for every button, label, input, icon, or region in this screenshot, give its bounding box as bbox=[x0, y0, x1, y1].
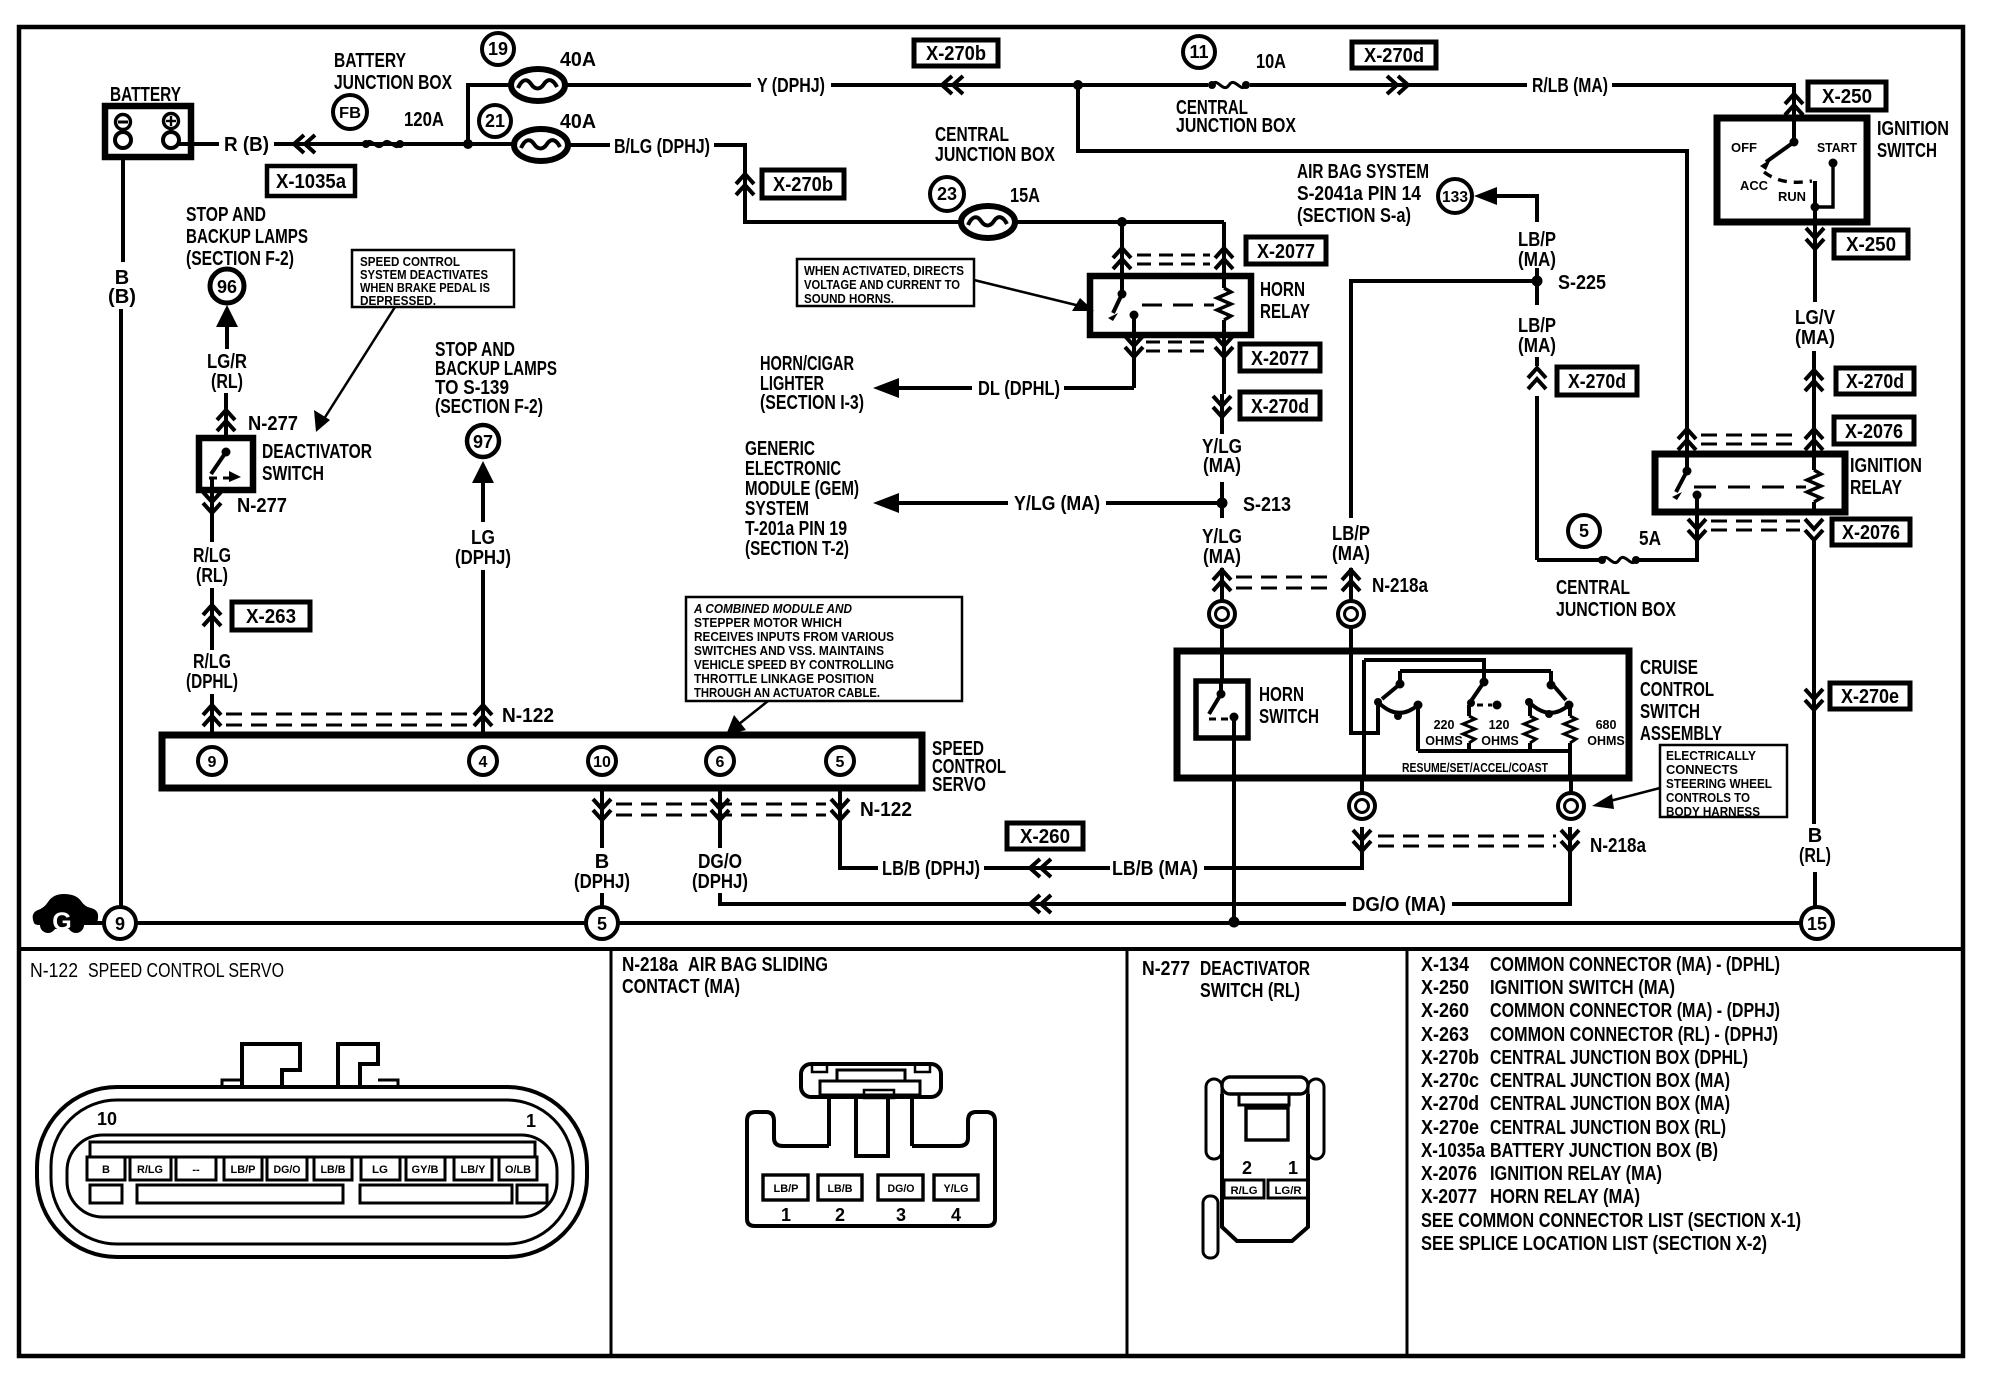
wire B (B) battery to ground bbox=[121, 157, 125, 262]
svg-text:SEE SPLICE LOCATION LIST (SECT: SEE SPLICE LOCATION LIST (SECTION X-2) bbox=[1421, 1233, 1767, 1255]
svg-text:(MA): (MA) bbox=[1332, 543, 1370, 565]
svg-text:10: 10 bbox=[593, 754, 611, 771]
ground bus bbox=[92, 921, 104, 925]
svg-text:SPEED CONTROL: SPEED CONTROL bbox=[360, 255, 460, 269]
svg-text:6: 6 bbox=[716, 754, 725, 771]
connector X-2076 dashes top bbox=[1701, 434, 1800, 437]
wire into servo pin 9 bbox=[210, 694, 214, 735]
connector X-250 bottom bbox=[1834, 230, 1908, 258]
connector N-218a drawing bbox=[747, 1064, 995, 1226]
connector X-250 top bbox=[1808, 82, 1886, 110]
svg-text:START: START bbox=[1817, 141, 1857, 155]
svg-text:X-270b: X-270b bbox=[773, 174, 833, 196]
svg-text:DEACTIVATOR: DEACTIVATOR bbox=[262, 441, 372, 463]
svg-text:T-201a PIN 19: T-201a PIN 19 bbox=[745, 518, 847, 540]
panel divider 3 bbox=[1406, 949, 1409, 1356]
svg-text:X-2077: X-2077 bbox=[1251, 348, 1309, 370]
ground ref circle 15 bbox=[1801, 907, 1833, 939]
ground ref circle 9 bbox=[104, 907, 136, 939]
svg-text:X-250: X-250 bbox=[1846, 234, 1896, 256]
svg-text:X-260: X-260 bbox=[1421, 1000, 1469, 1022]
svg-text:1: 1 bbox=[526, 1111, 536, 1131]
svg-text:DEPRESSED.: DEPRESSED. bbox=[360, 294, 436, 308]
svg-text:CENTRAL JUNCTION BOX (MA): CENTRAL JUNCTION BOX (MA) bbox=[1490, 1070, 1730, 1092]
svg-text:4: 4 bbox=[479, 754, 488, 771]
connector N-277 drawing bbox=[1203, 1077, 1324, 1258]
svg-text:X-270b: X-270b bbox=[926, 43, 986, 65]
node N-122 dashes bottom bbox=[616, 803, 826, 806]
svg-text:19: 19 bbox=[488, 39, 508, 59]
wire horn switch to ground bus bbox=[1232, 738, 1236, 921]
bullet connector right (LB/P) bbox=[1338, 601, 1364, 627]
svg-text:(DPHJ): (DPHJ) bbox=[574, 871, 630, 893]
svg-text:X-270e: X-270e bbox=[1841, 686, 1899, 708]
wire relay out to 5A bbox=[1639, 512, 1697, 560]
arrow up to 97 bbox=[472, 461, 494, 483]
wire DG/O down and right bbox=[720, 893, 1346, 904]
svg-text:LG: LG bbox=[372, 1164, 388, 1176]
svg-text:(SECTION I-3): (SECTION I-3) bbox=[760, 392, 864, 414]
ground G symbol bbox=[33, 894, 98, 936]
fuse 10A inline bbox=[1208, 81, 1250, 89]
svg-text:CENTRAL: CENTRAL bbox=[935, 124, 1009, 146]
svg-text:23: 23 bbox=[937, 184, 957, 204]
svg-text:IGNITION: IGNITION bbox=[1877, 118, 1949, 140]
svg-text:(SECTION F-2): (SECTION F-2) bbox=[435, 396, 543, 418]
servo pin 5 bbox=[826, 747, 854, 775]
fuse 120A inline bbox=[362, 140, 404, 148]
wire Y (DPHJ) bbox=[565, 83, 751, 87]
wire S-225 branch left and down x1351 bbox=[1351, 281, 1537, 518]
wire DL (DPHL) to horn/cigar bbox=[1064, 386, 1134, 390]
svg-text:GENERIC: GENERIC bbox=[745, 438, 815, 460]
svg-text:(MA): (MA) bbox=[1518, 249, 1556, 271]
svg-text:B: B bbox=[102, 1164, 110, 1176]
svg-text:SERVO: SERVO bbox=[932, 774, 986, 796]
svg-text:4: 4 bbox=[951, 1205, 961, 1225]
svg-text:ELECTRICALLY: ELECTRICALLY bbox=[1666, 749, 1757, 763]
wire LB/P riser x1537 bbox=[1535, 396, 1539, 560]
svg-text:(RL): (RL) bbox=[196, 565, 228, 587]
svg-text:LB/P: LB/P bbox=[1518, 229, 1556, 251]
svg-text:(MA): (MA) bbox=[1795, 327, 1835, 349]
svg-text:X-2077: X-2077 bbox=[1257, 241, 1315, 263]
svg-text:STOP AND: STOP AND bbox=[186, 204, 266, 226]
svg-text:STEERING WHEEL: STEERING WHEEL bbox=[1666, 777, 1772, 791]
ground ref circle 5 bbox=[586, 907, 618, 939]
svg-text:COMMON CONNECTOR (MA) - (DPHJ: COMMON CONNECTOR (MA) - (DPHJ) bbox=[1490, 1000, 1780, 1022]
svg-text:JUNCTION BOX: JUNCTION BOX bbox=[1176, 115, 1297, 137]
fuse 23 circle bbox=[930, 177, 964, 211]
wire LG/V down bbox=[1812, 351, 1816, 454]
svg-text:STEPPER MOTOR WHICH: STEPPER MOTOR WHICH bbox=[694, 616, 842, 630]
svg-text:AIR BAG SYSTEM: AIR BAG SYSTEM bbox=[1297, 161, 1429, 183]
svg-text:CENTRAL: CENTRAL bbox=[1556, 577, 1630, 599]
svg-text:X-270d: X-270d bbox=[1568, 371, 1626, 393]
svg-text:X-2076: X-2076 bbox=[1842, 522, 1900, 544]
svg-text:BATTERY JUNCTION BOX (B): BATTERY JUNCTION BOX (B) bbox=[1490, 1140, 1718, 1162]
svg-text:HORN: HORN bbox=[1260, 279, 1305, 301]
bullet connector left (Y/LG) bbox=[1209, 601, 1235, 627]
svg-text:SOUND HORNS.: SOUND HORNS. bbox=[804, 292, 894, 306]
svg-text:1: 1 bbox=[781, 1205, 791, 1225]
svg-text:5: 5 bbox=[1579, 521, 1589, 541]
bullet connector lower right (DG/O) bbox=[1558, 793, 1584, 819]
svg-text:RELAY: RELAY bbox=[1850, 477, 1903, 499]
svg-text:DL (DPHL): DL (DPHL) bbox=[978, 378, 1060, 400]
fuse 23 15A oval bbox=[961, 206, 1015, 238]
svg-text:X-263: X-263 bbox=[1421, 1024, 1469, 1046]
svg-text:GY/B: GY/B bbox=[412, 1164, 439, 1176]
svg-text:SWITCHES AND VSS. MAINTAINS: SWITCHES AND VSS. MAINTAINS bbox=[694, 644, 884, 658]
svg-text:N-277: N-277 bbox=[1142, 958, 1190, 980]
svg-text:(RL): (RL) bbox=[1799, 845, 1831, 867]
svg-text:OHMS: OHMS bbox=[1481, 734, 1519, 748]
svg-text:S-2041a PIN 14: S-2041a PIN 14 bbox=[1297, 183, 1422, 205]
svg-text:JUNCTION BOX: JUNCTION BOX bbox=[1556, 599, 1677, 621]
svg-text:LB/P: LB/P bbox=[774, 1183, 799, 1195]
connector X-263 bbox=[232, 602, 310, 630]
wire 5A to LB/P vertical bbox=[1537, 558, 1600, 562]
svg-text:S-225: S-225 bbox=[1558, 272, 1606, 294]
svg-text:5A: 5A bbox=[1639, 528, 1661, 550]
svg-text:X-2076: X-2076 bbox=[1421, 1163, 1477, 1185]
svg-text:120: 120 bbox=[1489, 718, 1510, 732]
svg-text:LB/Y: LB/Y bbox=[461, 1164, 487, 1176]
wire Y/LG below relay bbox=[1220, 394, 1224, 434]
connector X-2076 top bbox=[1834, 417, 1914, 444]
panel divider 2 bbox=[1126, 949, 1129, 1356]
svg-text:X-2077: X-2077 bbox=[1421, 1186, 1477, 1208]
horn relay bbox=[1090, 276, 1310, 335]
svg-text:SWITCH: SWITCH bbox=[1877, 140, 1937, 162]
fuse 21 circle bbox=[479, 105, 511, 137]
svg-text:X-1035a: X-1035a bbox=[1421, 1140, 1486, 1162]
svg-text:5: 5 bbox=[597, 914, 607, 934]
svg-text:ACC: ACC bbox=[1740, 179, 1768, 193]
wire B/LG (DPHJ) bbox=[568, 143, 610, 147]
svg-text:X-260: X-260 bbox=[1020, 826, 1070, 848]
svg-text:ASSEMBLY: ASSEMBLY bbox=[1640, 723, 1722, 745]
svg-text:X-270d: X-270d bbox=[1251, 396, 1309, 418]
junction node at fuse branch bbox=[463, 139, 473, 149]
svg-text:SWITCH (RL): SWITCH (RL) bbox=[1200, 980, 1300, 1002]
fuse 19 circle bbox=[482, 33, 514, 65]
svg-text:220: 220 bbox=[1434, 718, 1455, 732]
svg-text:15A: 15A bbox=[1010, 185, 1040, 207]
svg-text:N-122: N-122 bbox=[502, 705, 554, 727]
connector list bbox=[1421, 954, 1801, 1255]
wire to air bag 133 bbox=[1494, 196, 1537, 222]
svg-text:MODULE (GEM): MODULE (GEM) bbox=[745, 478, 859, 500]
svg-text:X-270d: X-270d bbox=[1846, 371, 1904, 393]
svg-text:LG/R: LG/R bbox=[1275, 1185, 1302, 1197]
svg-text:B/LG (DPHJ): B/LG (DPHJ) bbox=[614, 136, 710, 158]
ignition relay bbox=[1655, 454, 1922, 512]
svg-text:(MA): (MA) bbox=[1518, 335, 1556, 357]
svg-text:(DPHJ): (DPHJ) bbox=[692, 871, 748, 893]
node N-218a dashes bottom bbox=[1353, 830, 1371, 851]
ignition switch bbox=[1717, 118, 1949, 222]
connector N-122 drawing bbox=[37, 1044, 587, 1257]
servo pin 6 bbox=[706, 747, 734, 775]
wires below horn relay bbox=[1132, 335, 1136, 388]
svg-text:SWITCH: SWITCH bbox=[1640, 701, 1700, 723]
connector X-270d (Y/LG) bbox=[1240, 392, 1320, 419]
svg-text:Y/LG (MA): Y/LG (MA) bbox=[1014, 493, 1100, 515]
svg-text:THROTTLE LINKAGE POSITION: THROTTLE LINKAGE POSITION bbox=[694, 672, 874, 686]
connector X-270b top bbox=[914, 40, 998, 66]
wire Y/LG (MA) to GEM bbox=[1106, 501, 1218, 505]
svg-text:LB/P: LB/P bbox=[1518, 315, 1556, 337]
svg-text:N-277: N-277 bbox=[248, 413, 298, 435]
svg-text:DG/O: DG/O bbox=[888, 1183, 915, 1195]
svg-text:X-270d: X-270d bbox=[1421, 1093, 1479, 1115]
svg-text:CONNECTS: CONNECTS bbox=[1666, 763, 1738, 777]
wire R(B) to junction bbox=[274, 142, 514, 146]
svg-text:RESUME/SET/ACCEL/COAST: RESUME/SET/ACCEL/COAST bbox=[1402, 761, 1548, 775]
svg-text:DG/O (MA): DG/O (MA) bbox=[1352, 894, 1446, 916]
svg-text:WHEN ACTIVATED, DIRECTS: WHEN ACTIVATED, DIRECTS bbox=[804, 264, 964, 278]
svg-text:JUNCTION BOX: JUNCTION BOX bbox=[935, 144, 1056, 166]
svg-text:10A: 10A bbox=[1256, 51, 1286, 73]
wire below deactivator bbox=[210, 490, 214, 542]
resistor 120 ohms bbox=[1524, 716, 1536, 743]
svg-text:COMMON CONNECTOR (RL) - (DPHJ: COMMON CONNECTOR (RL) - (DPHJ) bbox=[1490, 1024, 1778, 1046]
servo pin 10 bbox=[588, 747, 616, 775]
svg-text:CRUISE: CRUISE bbox=[1640, 657, 1698, 679]
svg-text:O/LB: O/LB bbox=[505, 1164, 531, 1176]
svg-text:BATTERY: BATTERY bbox=[334, 50, 407, 72]
svg-text:DG/O: DG/O bbox=[274, 1164, 301, 1176]
wire battery to R (B) bbox=[179, 142, 219, 146]
svg-text:--: -- bbox=[192, 1164, 200, 1176]
svg-text:R (B): R (B) bbox=[224, 134, 269, 156]
svg-text:RECEIVES INPUTS FROM VARIOUS: RECEIVES INPUTS FROM VARIOUS bbox=[694, 630, 894, 644]
svg-text:LB/P: LB/P bbox=[231, 1164, 256, 1176]
svg-text:2: 2 bbox=[835, 1205, 845, 1225]
svg-text:N-277: N-277 bbox=[237, 495, 287, 517]
svg-text:15: 15 bbox=[1807, 914, 1827, 934]
svg-text:X-270d: X-270d bbox=[1364, 45, 1424, 67]
svg-text:SYSTEM DEACTIVATES: SYSTEM DEACTIVATES bbox=[360, 268, 488, 282]
svg-text:X-1035a: X-1035a bbox=[276, 171, 347, 193]
svg-text:HORN: HORN bbox=[1259, 684, 1304, 706]
svg-text:(SECTION T-2): (SECTION T-2) bbox=[745, 538, 849, 560]
svg-text:COMMON CONNECTOR (MA) - (DPHL: COMMON CONNECTOR (MA) - (DPHL) bbox=[1490, 954, 1780, 976]
svg-text:N-218a: N-218a bbox=[1372, 575, 1429, 597]
svg-text:N-218a: N-218a bbox=[1590, 835, 1647, 857]
svg-text:X-250: X-250 bbox=[1822, 86, 1872, 108]
connector X-2077 bottom bbox=[1240, 344, 1320, 371]
svg-text:(SECTION F-2): (SECTION F-2) bbox=[186, 248, 294, 270]
svg-text:BACKUP LAMPS: BACKUP LAMPS bbox=[186, 226, 308, 248]
svg-text:IGNITION: IGNITION bbox=[1850, 455, 1922, 477]
svg-text:X-263: X-263 bbox=[246, 606, 296, 628]
svg-text:120A: 120A bbox=[404, 109, 444, 131]
svg-text:A COMBINED MODULE AND: A COMBINED MODULE AND bbox=[693, 602, 852, 616]
svg-text:BATTERY: BATTERY bbox=[110, 84, 182, 106]
cruise switch inner wiring bbox=[1351, 651, 1570, 778]
connector X-270d (LB/P) bbox=[1557, 367, 1637, 395]
svg-text:CONTROL: CONTROL bbox=[1640, 679, 1714, 701]
svg-text:97: 97 bbox=[473, 432, 493, 452]
svg-text:S-213: S-213 bbox=[1243, 494, 1291, 516]
svg-text:B: B bbox=[1808, 825, 1822, 847]
svg-text:SWITCH: SWITCH bbox=[1259, 706, 1319, 728]
svg-text:HORN RELAY (MA): HORN RELAY (MA) bbox=[1490, 1186, 1640, 1208]
svg-text:CENTRAL JUNCTION BOX (DPHL): CENTRAL JUNCTION BOX (DPHL) bbox=[1490, 1047, 1748, 1069]
connector X-2076 bottom bbox=[1832, 519, 1910, 545]
node N-218a connector dashes top bbox=[1236, 576, 1336, 579]
svg-text:LB/B: LB/B bbox=[321, 1164, 346, 1176]
svg-text:X-2076: X-2076 bbox=[1845, 421, 1903, 443]
connector X-270b (B/LG) bbox=[762, 170, 844, 198]
splice S-213 bbox=[1217, 498, 1228, 509]
connector X-270d right bbox=[1836, 368, 1914, 394]
wire LG/R to deactivator bbox=[224, 393, 228, 438]
svg-text:X-134: X-134 bbox=[1421, 954, 1470, 976]
N-122 pin boxes bbox=[87, 1157, 537, 1180]
panel divider 1 bbox=[610, 949, 613, 1356]
wire junction up to fuse 19 bbox=[468, 85, 511, 144]
svg-text:10: 10 bbox=[97, 1109, 117, 1129]
svg-text:CONTROLS TO: CONTROLS TO bbox=[1666, 791, 1750, 805]
fuse 11 circle bbox=[1183, 36, 1215, 68]
svg-text:OHMS: OHMS bbox=[1587, 734, 1625, 748]
svg-text:G: G bbox=[52, 908, 71, 936]
speed control servo bbox=[162, 735, 1006, 796]
svg-text:CENTRAL JUNCTION BOX (RL): CENTRAL JUNCTION BOX (RL) bbox=[1490, 1117, 1726, 1139]
svg-text:VEHICLE SPEED BY CONTROLLING: VEHICLE SPEED BY CONTROLLING bbox=[694, 658, 894, 672]
svg-text:R/LG: R/LG bbox=[1231, 1185, 1258, 1197]
electrically connects note box bbox=[1592, 745, 1787, 819]
svg-text:21: 21 bbox=[485, 111, 505, 131]
speed control note box bbox=[314, 250, 514, 432]
svg-text:40A: 40A bbox=[560, 111, 596, 133]
svg-text:LG/V: LG/V bbox=[1795, 307, 1836, 329]
svg-text:AIR BAG SLIDING: AIR BAG SLIDING bbox=[688, 954, 828, 976]
wire to R/LB bbox=[1250, 83, 1527, 87]
svg-text:2: 2 bbox=[1242, 1158, 1252, 1178]
FB circle bbox=[333, 95, 367, 129]
svg-text:THROUGH AN ACTUATOR CABLE.: THROUGH AN ACTUATOR CABLE. bbox=[694, 686, 880, 700]
svg-text:LB/B: LB/B bbox=[828, 1183, 853, 1195]
bullet connector lower left (LB/B) bbox=[1349, 793, 1375, 819]
svg-text:(MA): (MA) bbox=[1203, 546, 1241, 568]
svg-text:96: 96 bbox=[217, 277, 237, 297]
svg-text:X-270b: X-270b bbox=[1421, 1047, 1479, 1069]
svg-text:(MA): (MA) bbox=[1203, 455, 1241, 477]
svg-text:R/LG: R/LG bbox=[193, 651, 231, 673]
resistor 220 ohms bbox=[1463, 716, 1475, 743]
fuse 19 40A bbox=[511, 69, 565, 101]
svg-text:LG/R: LG/R bbox=[207, 351, 247, 373]
svg-text:R/LB (MA): R/LB (MA) bbox=[1532, 75, 1608, 97]
svg-text:X-250: X-250 bbox=[1421, 977, 1469, 999]
svg-text:N-122: N-122 bbox=[30, 960, 78, 982]
svg-text:OHMS: OHMS bbox=[1425, 734, 1463, 748]
svg-text:R/LG: R/LG bbox=[137, 1164, 163, 1176]
svg-text:Y/LG: Y/LG bbox=[1202, 526, 1242, 548]
svg-text:N-218a: N-218a bbox=[622, 954, 679, 976]
junction node on Y wire bbox=[1073, 80, 1083, 90]
fuse 5A inline bbox=[1598, 556, 1640, 564]
svg-text:N-122: N-122 bbox=[860, 799, 912, 821]
node N-122 dashes top bbox=[226, 713, 470, 716]
combined module note box bbox=[686, 597, 962, 735]
svg-text:Y/LG: Y/LG bbox=[944, 1183, 969, 1195]
svg-text:LB/B (DPHJ): LB/B (DPHJ) bbox=[882, 858, 980, 880]
servo pin 4 bbox=[469, 747, 497, 775]
connector X-270d top bbox=[1352, 42, 1436, 68]
svg-text:X-270c: X-270c bbox=[1421, 1070, 1479, 1092]
svg-text:LB/B (MA): LB/B (MA) bbox=[1112, 858, 1198, 880]
svg-text:LG: LG bbox=[471, 527, 495, 549]
svg-text:R/LG: R/LG bbox=[193, 545, 231, 567]
connector X-2077 top bbox=[1246, 237, 1326, 264]
svg-text:JUNCTION BOX: JUNCTION BOX bbox=[334, 72, 453, 94]
svg-text:CENTRAL JUNCTION BOX (MA): CENTRAL JUNCTION BOX (MA) bbox=[1490, 1093, 1730, 1115]
reference circle 97 bbox=[467, 425, 499, 457]
horn switch bbox=[1196, 681, 1248, 738]
deactivator switch bbox=[199, 438, 253, 490]
wire LG into servo pin 4 bbox=[481, 570, 485, 735]
svg-text:(RL): (RL) bbox=[211, 371, 243, 393]
svg-text:1: 1 bbox=[1288, 1158, 1298, 1178]
wire to X-263 bbox=[210, 588, 214, 650]
connector X-260 bbox=[1007, 823, 1083, 849]
wire LG/V to X-270e to 15 bbox=[1812, 540, 1816, 824]
svg-text:DEACTIVATOR: DEACTIVATOR bbox=[1200, 958, 1310, 980]
svg-text:HORN/CIGAR: HORN/CIGAR bbox=[760, 353, 854, 375]
svg-text:(DPHL): (DPHL) bbox=[186, 671, 238, 693]
svg-text:680: 680 bbox=[1596, 718, 1617, 732]
svg-text:3: 3 bbox=[896, 1205, 906, 1225]
wires below servo bbox=[600, 788, 604, 848]
svg-text:Y (DPHJ): Y (DPHJ) bbox=[757, 75, 825, 97]
svg-text:IGNITION SWITCH (MA): IGNITION SWITCH (MA) bbox=[1490, 977, 1675, 999]
svg-text:BODY HARNESS: BODY HARNESS bbox=[1666, 805, 1760, 819]
svg-text:(DPHJ): (DPHJ) bbox=[455, 547, 511, 569]
svg-text:VOLTAGE AND CURRENT TO: VOLTAGE AND CURRENT TO bbox=[804, 278, 960, 292]
svg-text:ELECTRONIC: ELECTRONIC bbox=[745, 458, 841, 480]
svg-text:SEE COMMON CONNECTOR LIST (SE: SEE COMMON CONNECTOR LIST (SECTION X-1) bbox=[1421, 1210, 1801, 1232]
svg-text:RUN: RUN bbox=[1778, 190, 1806, 204]
wires bullets into cruise box bbox=[1220, 627, 1224, 681]
N-218a pin boxes bbox=[763, 1175, 978, 1200]
wire 15A to horn relay bbox=[1015, 220, 1224, 224]
resistor 680 ohms bbox=[1564, 716, 1576, 743]
svg-text:40A: 40A bbox=[560, 49, 596, 71]
svg-text:9: 9 bbox=[115, 914, 125, 934]
svg-text:5: 5 bbox=[836, 754, 845, 771]
servo pin 9 bbox=[198, 747, 226, 775]
battery bbox=[105, 84, 191, 157]
connector X-270e bbox=[1830, 683, 1910, 709]
connector X-1035a bbox=[267, 166, 355, 196]
svg-text:OFF: OFF bbox=[1731, 141, 1757, 155]
splice S-225 bbox=[1532, 276, 1543, 287]
svg-text:FB: FB bbox=[339, 105, 361, 122]
bottom section divider bbox=[19, 947, 1963, 951]
cruise control switch assembly bbox=[1177, 651, 1722, 778]
wire CJB to ignition relay bbox=[1078, 85, 1687, 454]
svg-text:SWITCH: SWITCH bbox=[262, 463, 324, 485]
svg-text:(B): (B) bbox=[108, 286, 136, 308]
svg-text:DG/O: DG/O bbox=[698, 851, 742, 873]
arrow up to 96 bbox=[216, 305, 238, 327]
